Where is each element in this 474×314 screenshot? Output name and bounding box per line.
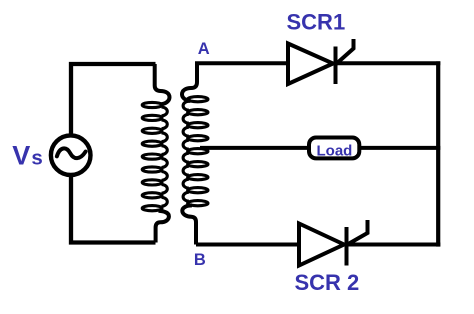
SCR1 cathode bar [334, 47, 338, 85]
transformer secondary coil [182, 63, 208, 244]
load box [309, 138, 359, 159]
SCR2 cathode bar [345, 227, 349, 266]
transformer primary coil [142, 64, 169, 243]
primary right-side connector arcs [162, 107, 168, 116]
secondary left-side connector arcs [183, 101, 189, 110]
svg-text:Load: Load [317, 142, 353, 159]
primary bottom stem [156, 211, 169, 243]
AC source Vs [51, 135, 91, 175]
svg-text:SCR 2: SCR 2 [295, 270, 360, 295]
SCR1 [288, 39, 354, 84]
primary turns (9 loops) [142, 102, 162, 107]
wire primary loop (left side, top, bottom) [71, 64, 156, 243]
svg-text:Vs: Vs [12, 140, 42, 170]
secondary turns (9 loops) [188, 97, 208, 102]
wire node B to SCR2 anode [196, 243, 299, 247]
SCR1 gate [336, 39, 354, 65]
svg-text:SCR1: SCR1 [287, 10, 346, 35]
sine wave inside Vs [57, 148, 86, 158]
SCR1 triangle [288, 44, 333, 85]
SCR2 triangle [299, 224, 344, 266]
SCR2 gate [347, 220, 368, 245]
wire SCR2 cathode to right rail [347, 243, 441, 247]
wire load to right rail [358, 146, 440, 150]
wire right rail vertical [436, 61, 440, 246]
secondary top stem [182, 63, 197, 101]
wire SCR1 cathode to right rail [336, 61, 441, 65]
wire center tap to load [200, 146, 311, 150]
wire node A to SCR1 anode [195, 61, 288, 65]
primary top stem [155, 64, 170, 104]
SCR2 [299, 220, 368, 266]
secondary bottom stem [182, 205, 196, 244]
svg-text:B: B [194, 251, 206, 269]
svg-text:A: A [198, 40, 210, 58]
